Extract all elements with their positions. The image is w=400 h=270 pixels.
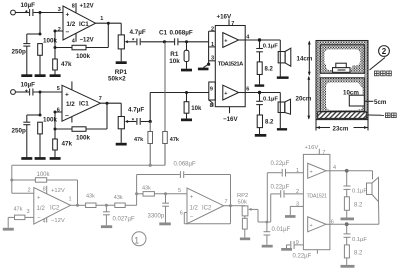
svg-text:+: +: [65, 92, 69, 99]
svg-text:6: 6: [57, 108, 60, 114]
svg-text:+16V: +16V: [217, 14, 232, 21]
svg-text:−: −: [190, 215, 194, 221]
svg-text:+12V: +12V: [80, 4, 94, 10]
svg-text:9: 9: [210, 86, 213, 92]
svg-text:4: 4: [333, 165, 336, 171]
svg-text:4: 4: [43, 219, 46, 225]
svg-text:100k: 100k: [43, 117, 58, 124]
svg-text:−16V: −16V: [223, 116, 238, 123]
svg-text:2: 2: [211, 26, 214, 32]
svg-text:4.7µF: 4.7µF: [130, 29, 146, 36]
svg-text:43k: 43k: [86, 193, 95, 199]
svg-text:IC2: IC2: [202, 206, 212, 212]
svg-text:6: 6: [246, 87, 249, 93]
svg-text:1/2: 1/2: [67, 21, 76, 28]
svg-text:0.22µF: 0.22µF: [293, 254, 312, 260]
svg-text:7: 7: [225, 199, 228, 205]
svg-text:1/2: 1/2: [190, 206, 199, 212]
svg-text:47k: 47k: [134, 137, 144, 143]
svg-text:1/2: 1/2: [66, 101, 75, 108]
svg-text:47k: 47k: [14, 206, 23, 212]
svg-text:0.01µF: 0.01µF: [272, 227, 291, 233]
svg-text:−: −: [66, 29, 70, 36]
svg-text:7: 7: [99, 96, 102, 102]
svg-text:2: 2: [296, 189, 299, 195]
svg-text:50k×2: 50k×2: [108, 76, 126, 83]
svg-text:0.068µF: 0.068µF: [174, 162, 196, 168]
svg-text:10k: 10k: [191, 106, 202, 112]
svg-text:10cm: 10cm: [343, 90, 359, 97]
svg-text:9: 9: [296, 240, 299, 246]
svg-text:2: 2: [382, 47, 387, 56]
svg-text:IC2: IC2: [50, 205, 60, 211]
svg-text:6: 6: [180, 211, 183, 217]
svg-text:RP2: RP2: [237, 193, 248, 199]
svg-text:100k: 100k: [37, 172, 51, 178]
svg-text:1: 1: [100, 16, 103, 22]
svg-text:*: *: [25, 10, 28, 17]
svg-text:14cm: 14cm: [297, 56, 313, 63]
svg-text:+: +: [37, 196, 41, 202]
svg-text:5: 5: [57, 86, 60, 92]
svg-text:+: +: [224, 91, 227, 97]
svg-text:0.1µF: 0.1µF: [352, 189, 367, 195]
svg-text:8.2: 8.2: [354, 203, 363, 209]
svg-text:−: −: [37, 216, 41, 222]
svg-text:250p: 250p: [12, 49, 27, 56]
svg-text:10µF: 10µF: [21, 82, 36, 89]
svg-text:0.22µF: 0.22µF: [271, 185, 290, 191]
svg-text:0.068µF: 0.068µF: [170, 30, 193, 37]
svg-text:1: 1: [211, 42, 214, 48]
svg-text:10µF: 10µF: [21, 2, 36, 9]
svg-text:100k: 100k: [76, 135, 91, 142]
svg-text:+: +: [190, 195, 194, 201]
svg-text:8.2: 8.2: [265, 67, 274, 73]
svg-text:3: 3: [26, 209, 29, 215]
svg-text:R1: R1: [170, 51, 179, 58]
svg-text:6: 6: [331, 219, 334, 225]
svg-text:−12V: −12V: [80, 37, 94, 43]
svg-text:4.7µF: 4.7µF: [128, 107, 144, 114]
svg-text:3: 3: [58, 7, 61, 13]
svg-text:3: 3: [296, 202, 299, 208]
svg-text:+: +: [310, 223, 313, 229]
svg-text:47k: 47k: [170, 137, 180, 143]
svg-text:0.22µF: 0.22µF: [271, 161, 290, 167]
svg-text:43k: 43k: [114, 195, 123, 201]
svg-text:3: 3: [211, 56, 214, 62]
svg-text:−: −: [65, 113, 69, 120]
svg-text:+16V: +16V: [305, 145, 319, 151]
svg-text:7: 7: [231, 21, 234, 27]
svg-text:47k: 47k: [61, 61, 72, 68]
svg-text:C1: C1: [159, 30, 168, 37]
svg-text:0.1µF: 0.1µF: [263, 44, 278, 50]
svg-text:20cm: 20cm: [296, 96, 312, 103]
svg-text:100k: 100k: [43, 38, 58, 45]
svg-text:47k: 47k: [62, 141, 73, 148]
svg-text:0.027µF: 0.027µF: [113, 217, 135, 223]
svg-text:2: 2: [58, 27, 61, 33]
svg-text:7: 7: [322, 150, 325, 156]
svg-text:10k: 10k: [169, 58, 180, 65]
svg-text:1: 1: [296, 168, 299, 174]
svg-text:1: 1: [134, 235, 139, 245]
svg-text:IC1: IC1: [79, 101, 89, 108]
svg-text:TDA1521A: TDA1521A: [218, 61, 244, 67]
svg-text:100k: 100k: [76, 53, 91, 60]
svg-text:3300p: 3300p: [148, 213, 165, 219]
svg-text:IC1: IC1: [79, 21, 89, 28]
svg-text:8.2: 8.2: [265, 119, 274, 125]
svg-text:1: 1: [69, 197, 72, 203]
svg-text:TDA1521: TDA1521: [307, 194, 328, 200]
svg-text:8: 8: [43, 187, 46, 193]
svg-text:8: 8: [210, 103, 213, 109]
svg-text:5cm: 5cm: [374, 99, 387, 106]
svg-text:8: 8: [72, 4, 75, 10]
svg-text:+: +: [66, 12, 70, 19]
svg-text:8.2: 8.2: [354, 251, 363, 257]
svg-text:0.1µF: 0.1µF: [352, 237, 367, 243]
svg-text:5: 5: [178, 188, 181, 194]
svg-text:0.1µF: 0.1µF: [263, 96, 278, 102]
svg-text:+: +: [310, 170, 313, 176]
svg-text:+: +: [224, 38, 227, 44]
svg-text:*: *: [25, 89, 28, 96]
svg-text:23cm: 23cm: [333, 125, 349, 132]
svg-text:50k: 50k: [238, 200, 247, 206]
svg-text:2: 2: [28, 188, 31, 194]
svg-text:−12V: −12V: [51, 218, 65, 224]
svg-text:+12V: +12V: [51, 188, 65, 194]
svg-text:43k: 43k: [142, 186, 151, 192]
svg-text:250p: 250p: [12, 128, 27, 135]
svg-text:1/2: 1/2: [37, 206, 46, 212]
